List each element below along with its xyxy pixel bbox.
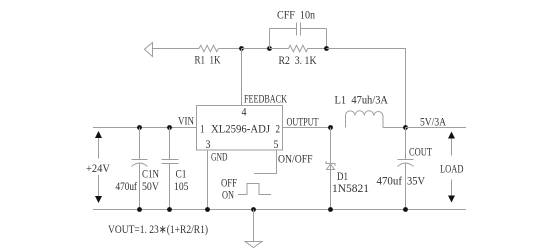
- svg-text:470uf: 470uf: [377, 176, 403, 188]
- formula VOUT: [108, 224, 208, 236]
- wire top rail left: [153, 48, 200, 50]
- pin label FEEDBACK: [244, 94, 287, 106]
- wire ON/OFF pin drop: [254, 150, 277, 174]
- inductor L1: [335, 95, 389, 128]
- resistor R2: [270, 45, 327, 67]
- on/off control waveform: [221, 178, 271, 202]
- node feedback junction: [239, 46, 244, 51]
- op-amp U1 XL2596-ADJ: [197, 106, 283, 152]
- net label 5V/3A: [420, 117, 447, 129]
- pin label VIN: [178, 116, 195, 128]
- node output: [403, 125, 408, 130]
- input terminal arrow: [145, 43, 153, 57]
- node GND bottom: [205, 207, 210, 212]
- wire bottom rail: [93, 209, 466, 211]
- svg-text:3: 3: [206, 139, 211, 151]
- svg-text:ON: ON: [222, 190, 234, 202]
- svg-text:L1 47uh/3A: L1 47uh/3A: [335, 95, 389, 107]
- svg-text:+24V: +24V: [86, 163, 111, 175]
- svg-text:OFF: OFF: [221, 178, 237, 190]
- load indicator: [440, 132, 464, 203]
- node C1 top: [167, 125, 172, 130]
- svg-text:105: 105: [174, 181, 189, 193]
- svg-text:VOUT=1. 23∗(1+R2/R1): VOUT=1. 23∗(1+R2/R1): [108, 224, 208, 236]
- svg-text:35V: 35V: [407, 176, 426, 188]
- +24V source indicator: [86, 131, 111, 203]
- svg-text:R1 1K: R1 1K: [195, 55, 222, 67]
- ground: [245, 210, 262, 248]
- svg-text:5V/3A: 5V/3A: [420, 117, 447, 129]
- wire top rail to output node: [327, 49, 406, 128]
- svg-text:1: 1: [200, 124, 205, 136]
- wire output rail: [406, 127, 467, 129]
- wire CFF loop top right: [301, 28, 327, 30]
- svg-text:470uf: 470uf: [116, 181, 138, 193]
- svg-text:4: 4: [242, 107, 247, 119]
- wire input rail: [93, 127, 197, 129]
- wire CFF loop top left: [270, 28, 297, 30]
- capacitor CFF: [277, 10, 315, 36]
- node C1 bottom: [167, 207, 172, 212]
- node R2 right: [324, 46, 329, 51]
- node COUT bottom: [403, 207, 408, 212]
- wire node to R2 left: [242, 48, 270, 50]
- node R2 left: [267, 46, 272, 51]
- svg-text:ON/OFF: ON/OFF: [278, 154, 313, 166]
- svg-text:LOAD: LOAD: [440, 164, 464, 176]
- svg-text:GND: GND: [211, 152, 228, 164]
- diode D1 1N5821: [326, 128, 369, 210]
- svg-text:CFF 10n: CFF 10n: [277, 10, 315, 22]
- capacitor COUT: [377, 128, 433, 210]
- wire L1 to output node: [383, 127, 406, 129]
- svg-text:FEEDBACK: FEEDBACK: [244, 94, 287, 106]
- svg-text:R2 3. 1K: R2 3. 1K: [279, 55, 318, 67]
- svg-text:XL2596-ADJ: XL2596-ADJ: [211, 124, 270, 136]
- wire OUTPUT pin: [283, 127, 331, 129]
- pin label GND: [211, 152, 228, 164]
- wire R1 to node: [219, 48, 242, 50]
- wire GND pin drop: [207, 150, 209, 210]
- capacitor C1N: [116, 128, 160, 210]
- svg-text:C1: C1: [176, 169, 187, 181]
- node D1 bottom: [328, 207, 333, 212]
- resistor R1: [195, 45, 222, 66]
- pin label ON/OFF: [278, 154, 313, 166]
- svg-text:OUTPUT: OUTPUT: [287, 117, 319, 129]
- node D1 top: [328, 125, 333, 130]
- svg-text:D1: D1: [337, 171, 348, 183]
- svg-text:VIN: VIN: [178, 116, 195, 128]
- svg-text:50V: 50V: [142, 181, 160, 193]
- wire CFF loop left vertical: [269, 29, 271, 49]
- svg-text:5: 5: [274, 139, 279, 151]
- svg-text:COUT: COUT: [409, 147, 432, 159]
- wire CFF loop right vertical: [326, 29, 328, 49]
- capacitor C1: [162, 128, 189, 210]
- node C1N bottom: [137, 207, 142, 212]
- wire feedback drop: [241, 49, 243, 106]
- svg-text:C1N: C1N: [142, 169, 160, 181]
- pin label OUTPUT: [287, 117, 319, 129]
- node C1N top: [137, 125, 142, 130]
- svg-text:2: 2: [276, 124, 281, 136]
- node ground junction: [251, 207, 256, 212]
- svg-text:1N5821: 1N5821: [332, 183, 369, 195]
